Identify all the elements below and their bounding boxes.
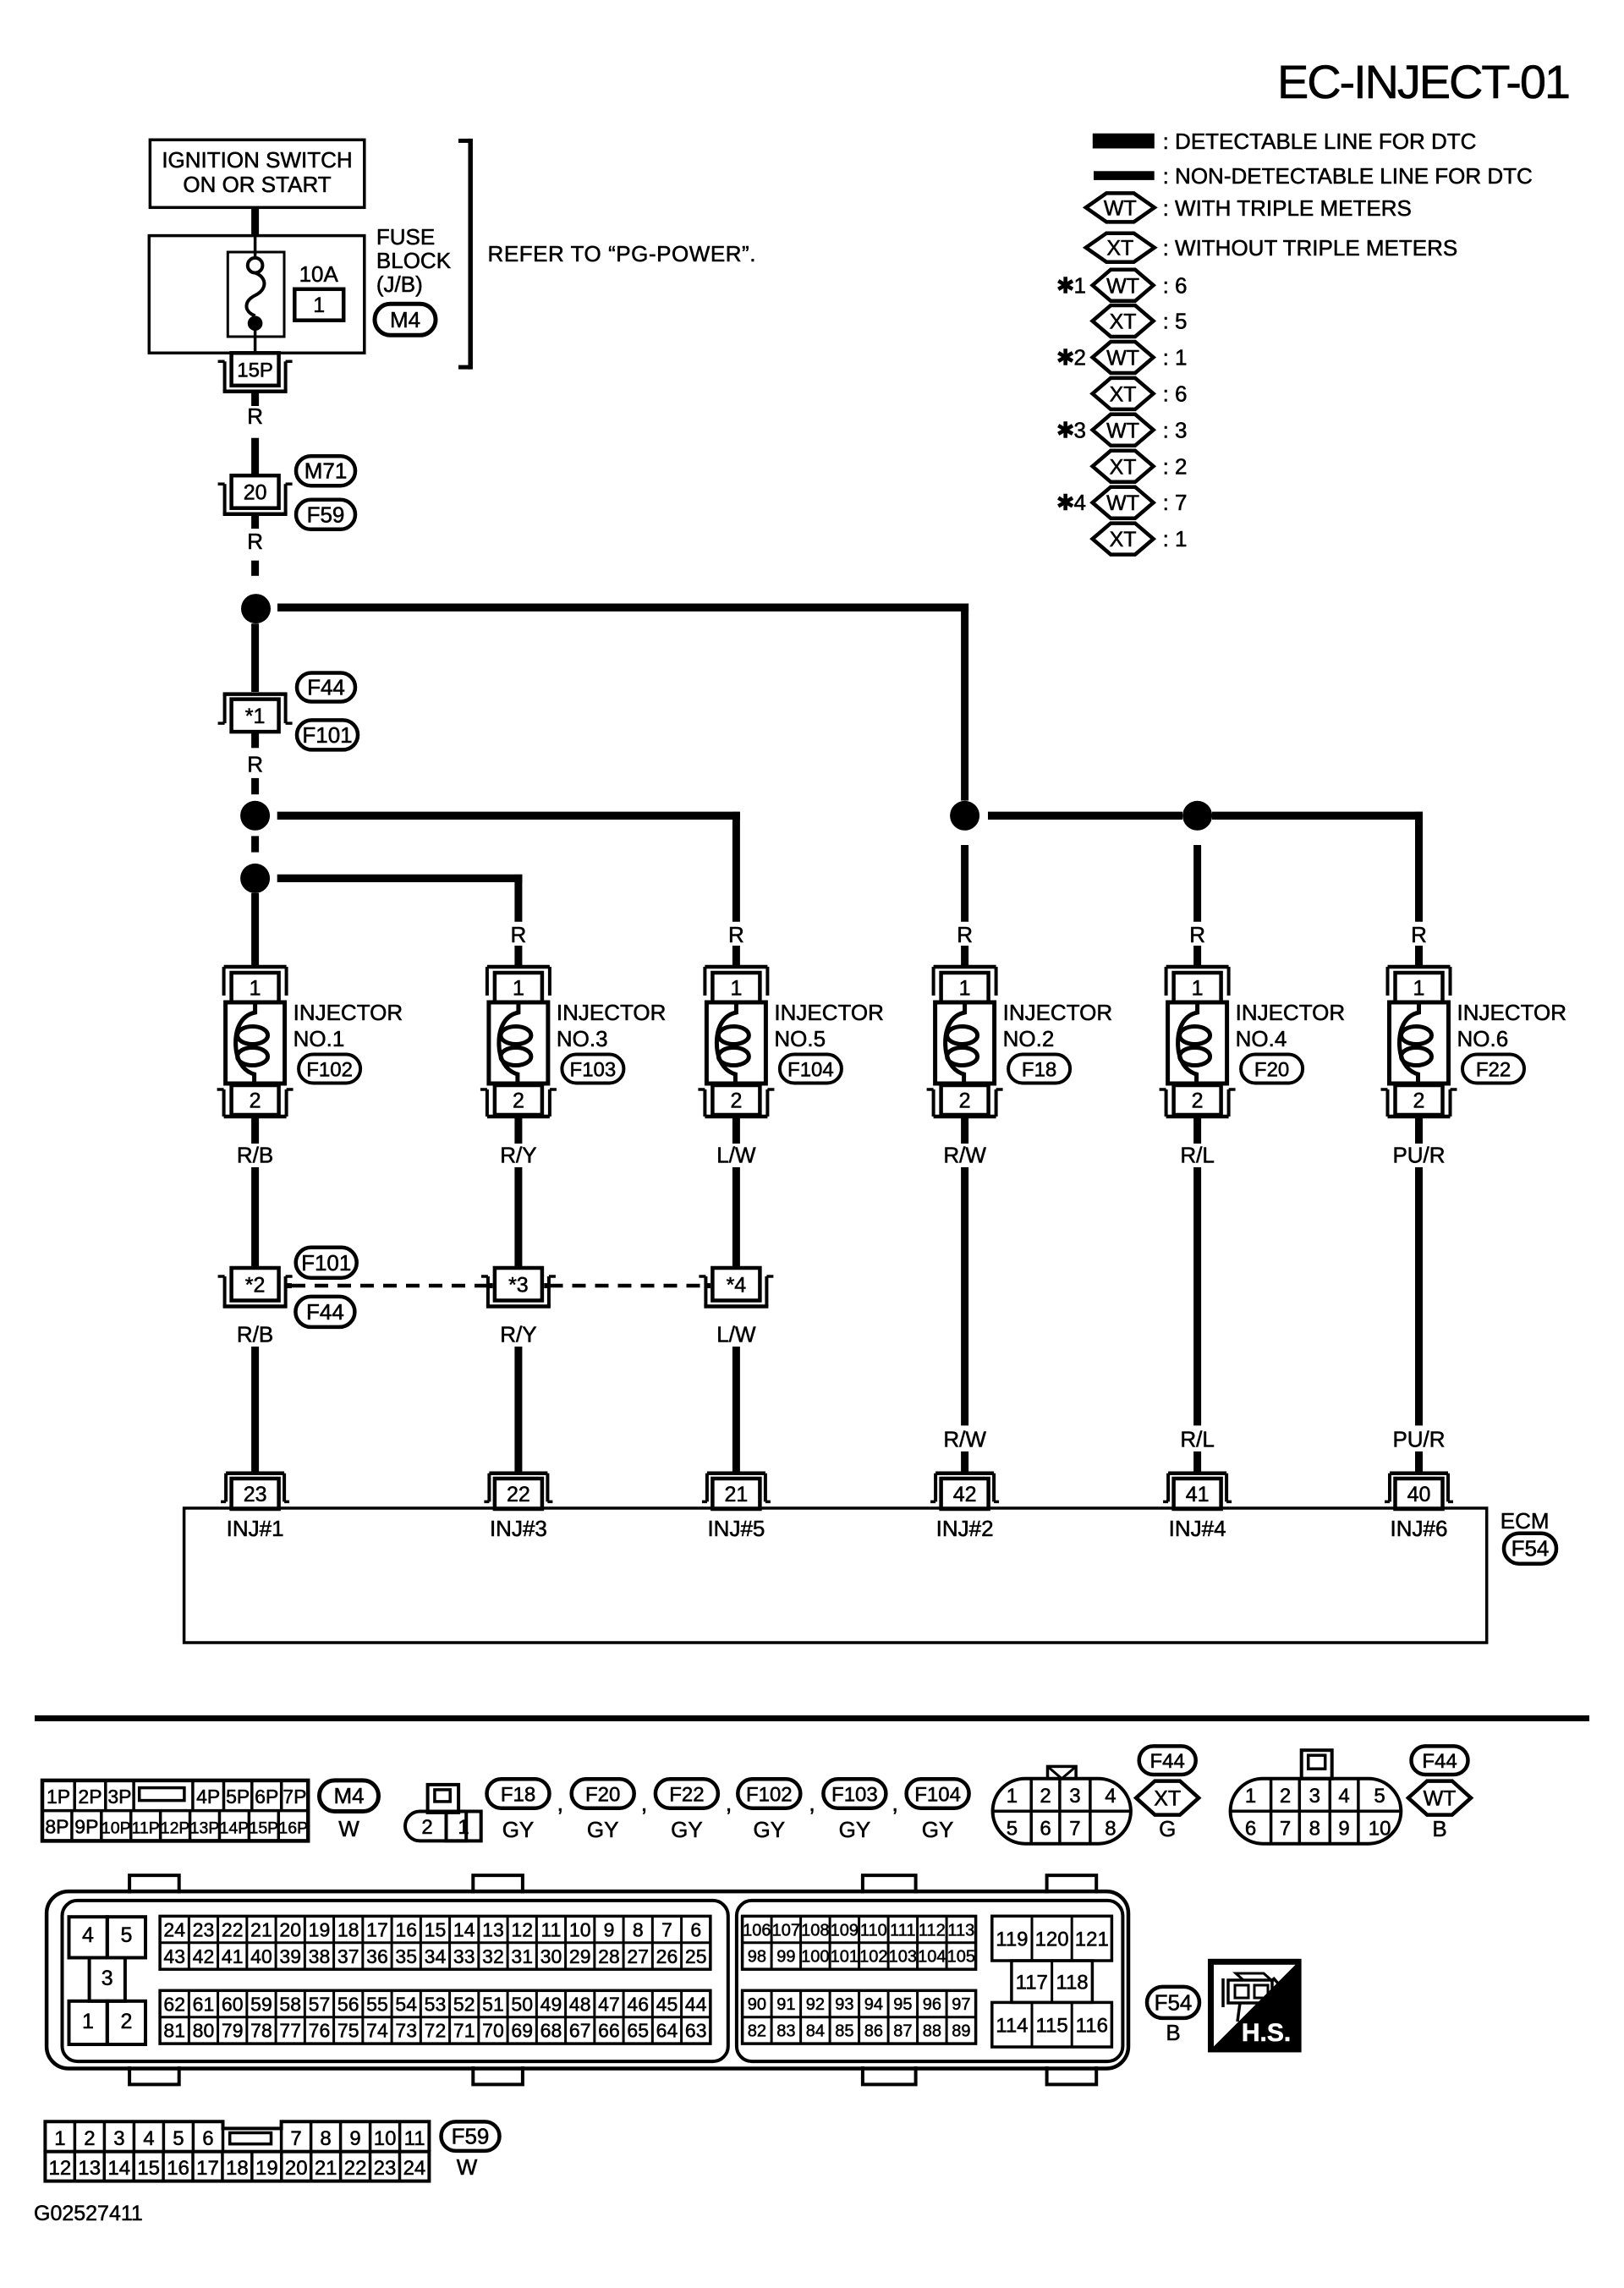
svg-text:XT: XT [1110,310,1137,334]
svg-text:24: 24 [403,2157,426,2180]
connector *4 [712,1268,760,1301]
ECM connector pin block 119-121 [992,1916,1112,1961]
svg-text:L/W: L/W [716,1143,756,1168]
injector NO.6 (F22) [1388,965,1451,969]
svg-text:W: W [457,2154,478,2180]
svg-text:12: 12 [49,2157,72,2180]
svg-text:12P: 12P [161,1819,190,1838]
svg-text:R: R [957,922,973,947]
svg-text:80: 80 [193,2020,215,2042]
svg-text:WT: WT [1106,347,1139,370]
svg-text:WT: WT [1424,1787,1457,1811]
svg-text:44: 44 [685,1993,707,2015]
svg-text:5: 5 [1374,1785,1385,1808]
svg-text:106: 106 [743,1921,771,1940]
junction dot A (main) [241,594,271,623]
svg-text:19: 19 [309,1918,331,1940]
svg-text:4: 4 [82,1923,94,1947]
svg-text:R/B: R/B [237,1321,273,1347]
connector M4 label [375,304,436,335]
svg-text:93: 93 [835,1995,853,2014]
svg-text:10: 10 [374,2127,397,2150]
svg-text:7P: 7P [283,1786,306,1808]
svg-text:NO.5: NO.5 [774,1026,826,1051]
svg-text:17: 17 [366,1918,388,1940]
svg-text:BLOCK: BLOCK [376,248,452,273]
injector NO.3 (F103) [487,965,550,969]
legend *2 XT value [1093,378,1154,409]
svg-text:29: 29 [569,1945,591,1967]
svg-text:86: 86 [864,2022,883,2041]
svg-text:53: 53 [425,1993,447,2015]
svg-text:71: 71 [453,2020,475,2042]
svg-text:116: 116 [1076,2014,1108,2037]
svg-text:6: 6 [1245,1818,1256,1841]
svg-text:2: 2 [1040,1785,1051,1808]
dashed link *2-*3 [287,1283,292,1288]
ECM terminal 21 (INJ#5) [707,1472,765,1476]
svg-text:18: 18 [226,2157,249,2180]
svg-text:F103: F103 [570,1059,617,1082]
svg-text:48: 48 [569,1993,591,2015]
svg-text:B: B [1432,1816,1446,1841]
svg-text:40: 40 [1407,1483,1431,1506]
svg-text:INJ#4: INJ#4 [1169,1516,1226,1541]
svg-text:50: 50 [511,1993,533,2015]
svg-text:47: 47 [598,1993,620,2015]
svg-text:41: 41 [1186,1483,1210,1506]
wire PU/R injector to ECM [1415,1117,1423,1144]
wire L/W injector to connector [732,1117,740,1144]
svg-text:75: 75 [337,2020,359,2042]
svg-text:R/L: R/L [1180,1143,1214,1168]
svg-text:2: 2 [1192,1089,1204,1113]
svg-text:10: 10 [1369,1818,1391,1841]
svg-text:R/Y: R/Y [500,1143,536,1168]
svg-text:XT: XT [1106,237,1133,261]
svg-text:2: 2 [84,2127,95,2150]
bus wire to injector 2/4/6 branch [277,604,968,612]
svg-text:15: 15 [137,2157,160,2180]
svg-text:45: 45 [656,1993,678,2015]
wire junction B to junction C [251,836,259,852]
svg-text:55: 55 [366,1993,388,2015]
svg-text:INJECTOR: INJECTOR [774,1000,884,1025]
svg-text:M71: M71 [304,458,348,484]
svg-text:52: 52 [453,1993,475,2015]
wire ignition to fuse block [251,207,259,237]
svg-text:2P: 2P [78,1786,101,1808]
svg-text:22: 22 [222,1918,244,1940]
ECM connector pin block 114-116 [992,2002,1112,2047]
wire junction A to connector *1 [251,623,259,692]
connector F54 label [1504,1534,1556,1564]
wire R/W injector to ECM [961,1117,968,1144]
svg-text:R/Y: R/Y [500,1321,536,1347]
svg-text:: WITH TRIPLE METERS: : WITH TRIPLE METERS [1163,195,1412,221]
legend detectable line bar [1093,134,1155,149]
svg-text:1: 1 [1007,1785,1018,1808]
svg-text:WT: WT [1106,419,1139,442]
svg-text:97: 97 [952,1995,970,2014]
ECM connector pin block 44-81 [160,1990,710,2044]
svg-text:21: 21 [315,2157,337,2180]
svg-text:: WITHOUT TRIPLE METERS: : WITHOUT TRIPLE METERS [1163,235,1458,261]
svg-text:,: , [557,1790,563,1816]
svg-text:30: 30 [540,1945,562,1967]
svg-text:GY: GY [922,1817,954,1842]
connector F101 label [296,1248,357,1278]
separator line [35,1715,1589,1721]
svg-text:F18: F18 [1022,1059,1056,1082]
svg-text:101: 101 [831,1948,859,1967]
svg-text:M4: M4 [333,1783,364,1808]
svg-text:92: 92 [806,1995,825,2014]
wire *1 to junction B [251,732,259,748]
wire R/B injector to connector [251,1117,259,1144]
svg-text:F59: F59 [452,2124,490,2149]
connector F59 pin grid [45,2121,429,2181]
svg-text:14: 14 [453,1918,475,1940]
svg-text:✱3: ✱3 [1056,417,1086,442]
svg-text:R/L: R/L [1180,1427,1214,1452]
wire R/L injector to ECM [1193,1117,1201,1144]
svg-text:74: 74 [366,2020,388,2042]
svg-text:40: 40 [250,1945,272,1967]
svg-text:82: 82 [748,2022,766,2041]
svg-text:,: , [726,1790,732,1816]
svg-text:68: 68 [540,2020,562,2042]
svg-text:3P: 3P [107,1786,131,1808]
svg-text:42: 42 [953,1483,977,1506]
svg-text:5: 5 [1007,1818,1018,1841]
svg-text:98: 98 [748,1948,766,1967]
connector F59 label [296,500,355,529]
svg-text:R: R [1189,922,1205,947]
svg-text:110: 110 [860,1921,887,1940]
legend *4 XT value [1093,524,1154,555]
svg-text:F104: F104 [914,1784,961,1807]
connector 15P [232,353,279,386]
svg-text:1: 1 [82,2010,94,2033]
svg-text:4: 4 [1338,1785,1349,1808]
svg-text:F22: F22 [1476,1059,1511,1082]
svg-text:9: 9 [604,1918,615,1940]
svg-text:85: 85 [835,2022,853,2041]
svg-text:INJECTOR: INJECTOR [294,1000,403,1025]
svg-text:: DETECTABLE LINE FOR DTC: : DETECTABLE LINE FOR DTC [1163,129,1477,154]
svg-text:102: 102 [859,1948,887,1967]
svg-text:23: 23 [244,1483,267,1506]
svg-text:87: 87 [893,2022,912,2041]
svg-text:20: 20 [244,480,267,504]
svg-text:69: 69 [511,2020,533,2042]
connector F103 label (GY) [823,1779,886,1808]
svg-text:27: 27 [627,1945,649,1967]
svg-text:PU/R: PU/R [1392,1143,1445,1168]
svg-text:: 7: : 7 [1163,490,1188,515]
connector M4 pin grid [42,1780,308,1841]
svg-text:4: 4 [143,2127,154,2150]
svg-text:INJECTOR: INJECTOR [1003,1000,1113,1025]
svg-text:114: 114 [996,2014,1028,2037]
svg-text:6P: 6P [255,1786,278,1808]
connector F44 8-pin (XT, G) [993,1766,1131,1843]
svg-text:,: , [892,1790,898,1816]
svg-text:9: 9 [1338,1818,1349,1841]
ignition switch box [150,140,364,207]
svg-text:GY: GY [587,1817,619,1842]
svg-text:83: 83 [776,2022,795,2041]
H.S. data link connector icon [1211,1962,1299,2049]
injector NO.2 (F18) [934,965,996,969]
connector F54 label (B) [1147,1987,1199,2018]
legend *3 XT value [1093,451,1154,482]
svg-text:: 3: : 3 [1163,417,1188,442]
connector *1 (F44/F101) [232,700,279,732]
svg-text:2: 2 [1280,1785,1291,1808]
svg-text:M4: M4 [390,307,420,332]
svg-text:1: 1 [250,977,261,1001]
svg-text:*3: *3 [508,1273,529,1297]
svg-text:INJECTOR: INJECTOR [1236,1000,1346,1025]
svg-text:G02527411: G02527411 [34,2202,143,2225]
svg-text:13P: 13P [190,1819,220,1838]
connector F44 label (WT) [1412,1746,1468,1775]
svg-text:L/W: L/W [716,1321,756,1347]
svg-text:ECM: ECM [1501,1508,1550,1534]
svg-text:7: 7 [290,2127,301,2150]
svg-text:13: 13 [78,2157,101,2180]
svg-text:NO.6: NO.6 [1457,1026,1509,1051]
svg-text:99: 99 [776,1948,795,1967]
svg-text:WT: WT [1106,274,1139,298]
svg-text:EC-INJECT-01: EC-INJECT-01 [1277,55,1571,108]
dashed link *3-*4 [544,1283,549,1288]
svg-text:XT: XT [1154,1787,1181,1811]
ECM terminal 42 (INJ#2) [935,1472,994,1476]
svg-text:H.S.: H.S. [1242,2019,1291,2047]
bus wire to injector 5 [277,812,740,820]
bus wire E to injector 6 [1212,812,1423,820]
svg-text:14P: 14P [220,1819,250,1838]
svg-text:77: 77 [279,2020,301,2042]
svg-text:56: 56 [337,1993,359,2015]
svg-text:R/W: R/W [943,1427,986,1452]
svg-text:: 6: : 6 [1163,381,1188,406]
svg-text:: 6: : 6 [1163,272,1188,298]
svg-text:INJ#6: INJ#6 [1391,1516,1448,1541]
svg-text:35: 35 [395,1945,417,1967]
svg-text:49: 49 [540,1993,562,2015]
svg-text:R/W: R/W [943,1143,986,1168]
svg-text:GY: GY [839,1817,871,1842]
connector F44 label [297,673,355,702]
injector NO.4 (F20) [1166,965,1229,969]
ECM connector F54 housing [47,1875,1128,2084]
legend non-detectable line bar [1094,171,1155,180]
svg-text:10: 10 [569,1918,591,1940]
svg-text:3: 3 [113,2127,124,2150]
connector F44 label (XT) [1139,1746,1196,1775]
wire dot E down to injector 4 [1193,845,1201,922]
ECM connector pin block 98-113 [743,1916,976,1969]
svg-text:107: 107 [772,1921,800,1940]
svg-text:119: 119 [996,1928,1028,1951]
svg-text:3: 3 [1069,1785,1080,1808]
svg-text:17: 17 [196,2157,219,2180]
junction dot C [240,864,270,893]
svg-text:FUSE: FUSE [376,224,435,250]
svg-text:12: 12 [511,1918,533,1940]
svg-text:1: 1 [959,977,971,1001]
ECM connector left pins 1-5 [69,1917,146,2044]
svg-text:R: R [247,403,263,429]
svg-text:111: 111 [890,1921,915,1940]
svg-text:2: 2 [121,2010,133,2033]
svg-text:*2: *2 [245,1273,266,1297]
svg-text:14: 14 [107,2157,130,2180]
svg-text:5P: 5P [226,1786,250,1808]
svg-text:F44: F44 [1422,1750,1457,1773]
connector M4 label [320,1780,379,1812]
svg-text:,: , [641,1790,648,1816]
svg-text:INJ#1: INJ#1 [227,1516,284,1541]
svg-text:16: 16 [167,2157,189,2180]
svg-text:9P: 9P [74,1816,98,1838]
svg-text:F44: F44 [306,1299,344,1325]
svg-text:23: 23 [374,2157,397,2180]
svg-text:4P: 4P [196,1786,220,1808]
junction dot D (right bus) [950,801,979,831]
svg-text:70: 70 [482,2020,504,2042]
connector F44 10-pin (WT, B) [1231,1750,1402,1844]
junction dot E [1182,801,1212,831]
svg-text:23: 23 [193,1918,215,1940]
svg-text:INJ#2: INJ#2 [936,1516,994,1541]
svg-text:38: 38 [309,1945,331,1967]
injector NO.1 (F102) [224,965,287,969]
svg-text:15P: 15P [237,359,273,382]
svg-text:76: 76 [309,2020,331,2042]
svg-text:✱4: ✱4 [1056,490,1086,515]
ECM box [184,1508,1487,1643]
svg-text:R: R [1411,922,1427,947]
svg-text:F101: F101 [301,1250,351,1276]
svg-text:: 1: : 1 [1163,345,1188,370]
junction dot B [240,801,270,831]
connector F101 label [297,720,358,749]
svg-text:R: R [247,529,263,554]
ECM connector pin block 6-43 [160,1916,710,1969]
svg-text:REFER TO “PG-POWER”.: REFER TO “PG-POWER”. [488,241,756,266]
svg-text:F54: F54 [1155,1989,1193,2015]
svg-text:F44: F44 [307,675,345,700]
svg-text:F102: F102 [746,1784,793,1807]
svg-text:*4: *4 [727,1273,747,1297]
svg-text:65: 65 [627,2020,649,2042]
svg-text:66: 66 [598,2020,620,2042]
connector F20 label (GY) [572,1779,634,1808]
svg-text:9: 9 [349,2127,360,2150]
svg-text:19: 19 [255,2157,278,2180]
svg-text:58: 58 [279,1993,301,2015]
wire junction C to injector 1 [251,893,259,967]
svg-text:F22: F22 [669,1784,704,1807]
svg-text:5: 5 [121,1923,133,1947]
svg-text:115: 115 [1035,2014,1067,2037]
svg-text:NO.3: NO.3 [557,1026,608,1051]
svg-text:103: 103 [889,1948,917,1967]
svg-text:20: 20 [285,2157,308,2180]
svg-text:112: 112 [919,1921,946,1940]
ECM connector pin block 117-118 [1012,1961,1093,2002]
connector F18 label (GY) [487,1779,550,1808]
svg-text:F44: F44 [1150,1750,1185,1773]
svg-text:1: 1 [458,1816,469,1839]
svg-text:62: 62 [163,1993,185,2015]
svg-text:22: 22 [507,1483,530,1506]
svg-text:34: 34 [425,1945,447,1967]
svg-text:109: 109 [831,1921,859,1940]
wire 20 to junction [251,515,259,529]
svg-text:NO.2: NO.2 [1003,1026,1055,1051]
connector F104 label (GY) [907,1779,969,1808]
svg-text:F102: F102 [306,1059,353,1082]
svg-text:10A: 10A [299,261,339,287]
svg-text:7: 7 [1069,1818,1080,1841]
svg-text:B: B [1166,2020,1180,2045]
svg-text:F20: F20 [585,1784,620,1807]
svg-text:6: 6 [1040,1818,1051,1841]
svg-text:INJECTOR: INJECTOR [557,1000,667,1025]
svg-text:72: 72 [425,2020,447,2042]
2-pin connector symbol [405,1785,481,1841]
svg-text:90: 90 [748,1995,766,2014]
svg-text:84: 84 [806,2022,825,2041]
svg-text:WT: WT [1104,196,1137,220]
svg-text:20: 20 [279,1918,301,1940]
svg-text:25: 25 [685,1945,707,1967]
svg-text:2: 2 [1413,1089,1425,1113]
connector F22 label (GY) [656,1779,718,1808]
fuse number 1 box [294,289,343,321]
svg-text:3: 3 [1309,1785,1320,1808]
legend *1 XT value [1093,305,1154,337]
svg-text:4: 4 [1105,1785,1116,1808]
legend XT symbol [1086,233,1155,262]
ECM connector pin block 82-97 [743,1990,976,2044]
svg-text:W: W [338,1816,359,1841]
svg-text:60: 60 [222,1993,244,2015]
svg-text:8: 8 [633,1918,644,1940]
svg-text:108: 108 [801,1921,829,1940]
svg-text:6: 6 [690,1918,701,1940]
svg-text:33: 33 [453,1945,475,1967]
svg-text:67: 67 [569,2020,591,2042]
svg-text:F103: F103 [831,1784,878,1807]
wire 15P to 20 [251,392,259,406]
svg-text:32: 32 [482,1945,504,1967]
svg-text:28: 28 [598,1945,620,1967]
svg-text:118: 118 [1056,1971,1088,1994]
svg-text:*1: *1 [245,705,266,728]
svg-text:F18: F18 [501,1784,535,1807]
svg-text:(J/B): (J/B) [376,272,423,297]
svg-text:,: , [809,1790,815,1816]
svg-text:64: 64 [656,2020,678,2042]
svg-text:2: 2 [421,1816,432,1839]
